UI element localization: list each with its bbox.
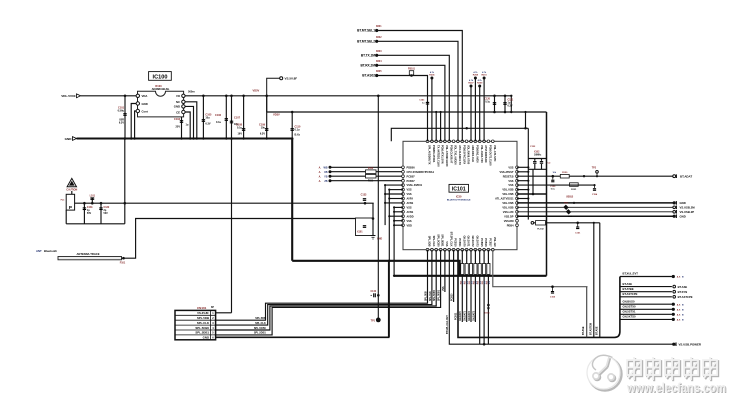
svg-text:VSS.DM: VSS.DM xyxy=(504,219,514,223)
wire left pin 5 stub xyxy=(384,184,403,186)
svg-text:PCB16: PCB16 xyxy=(484,238,488,247)
wire filter ground bar xyxy=(66,210,125,224)
IC100 reference label box xyxy=(149,72,172,81)
wire right pin 4 stub xyxy=(517,180,529,182)
node terminal BT.RX.2M xyxy=(360,60,382,68)
node USB terminal VS.USB.2M xyxy=(673,206,695,210)
svg-text:0.1u: 0.1u xyxy=(551,188,556,190)
wire bottom pin8 label xyxy=(456,312,458,320)
capacitor C108 xyxy=(236,96,245,139)
svg-text:B: B xyxy=(682,304,684,306)
capacitor C152 xyxy=(530,146,537,153)
svg-text:BT.ASE: BT.ASE xyxy=(623,282,633,286)
svg-text:ANTENNA TRACE: ANTENNA TRACE xyxy=(76,252,99,256)
svg-text:R121: R121 xyxy=(571,189,577,191)
svg-text:PCB15: PCB15 xyxy=(480,238,484,247)
svg-text:470: 470 xyxy=(488,281,491,284)
node terminal BT.MT.SEL1 xyxy=(357,26,382,33)
wire VDD drop to top pin x436.2 xyxy=(435,111,437,141)
IC100 body xyxy=(138,91,184,117)
node VDL5V label xyxy=(253,89,260,93)
svg-text:VDL.USB: VDL.USB xyxy=(502,188,513,192)
IC101 reference label box xyxy=(449,184,469,192)
node ladder terminal BT.ASTCPE xyxy=(673,295,693,299)
svg-text:SPL.5DB1: SPL.5DB1 xyxy=(439,289,441,301)
svg-text:BT.SPL.CLK.OUT: BT.SPL.CLK.OUT xyxy=(447,315,449,334)
wire antenna to RF input xyxy=(122,219,356,259)
wire thick pin7 line xyxy=(517,169,547,195)
svg-text:A.: A. xyxy=(319,175,322,178)
svg-text:VDL.5V00: VDL.5V00 xyxy=(61,94,76,98)
svg-text:PCB07: PCB07 xyxy=(407,174,416,178)
wire bottom pin6 long GND xyxy=(447,250,673,345)
svg-text:0.1u: 0.1u xyxy=(237,127,242,130)
wire ladder row BT.XUL.EVT xyxy=(620,272,672,277)
svg-text:RESET.B: RESET.B xyxy=(503,174,514,178)
node left input terminal A.YB xyxy=(319,175,403,179)
wire GND strap x389 xyxy=(388,260,391,263)
svg-text:SPL.CLK: SPL.CLK xyxy=(432,236,436,247)
wire VSS ring top xyxy=(391,111,528,141)
resistor R32 on bottom pin 11 xyxy=(468,250,474,322)
svg-text:PCB11: PCB11 xyxy=(458,238,462,247)
svg-text:PCB47: PCB47 xyxy=(407,179,416,183)
svg-text:ATX.CLKDD1.TX: ATX.CLKDD1.TX xyxy=(458,145,462,165)
svg-text:CAUTION: CAUTION xyxy=(66,188,77,191)
svg-text:R204: R204 xyxy=(376,60,382,63)
svg-text:PCB10: PCB10 xyxy=(452,293,454,301)
svg-text:C106: C106 xyxy=(215,114,222,117)
capacitor C120 xyxy=(484,95,496,114)
node junction 5V at 3V rail xyxy=(230,95,233,98)
svg-text:C140: C140 xyxy=(371,290,377,293)
wire VSS bus x385 xyxy=(384,185,386,225)
svg-text:R203: R203 xyxy=(376,51,382,53)
capacitor C101 xyxy=(118,96,127,139)
svg-text:BT.AS02: BT.AS02 xyxy=(362,74,375,78)
capacitor C104 xyxy=(174,117,189,139)
wire SPI SPL.5DB1 xyxy=(216,250,441,335)
svg-text:1u: 1u xyxy=(422,103,425,105)
IC100 part labels xyxy=(152,84,170,91)
ferrite bead FB101 xyxy=(408,69,416,77)
svg-text:R201: R201 xyxy=(376,26,382,28)
svg-text:C152: C152 xyxy=(530,146,536,148)
node GND.POWER terminal xyxy=(672,342,702,346)
wire ladder row BT.ATBE xyxy=(620,287,672,292)
node terminal BT.TX.2M xyxy=(361,51,382,58)
svg-text:10u: 10u xyxy=(205,117,210,120)
resistor R35 on bottom pin 14 xyxy=(482,250,486,345)
wire SPI SPL.5CB0 xyxy=(216,250,437,330)
svg-text:GN.5STX1: GN.5STX1 xyxy=(623,310,636,314)
svg-text:VDL.AT1.SYN: VDL.AT1.SYN xyxy=(493,145,497,162)
svg-text:F101: F101 xyxy=(120,261,126,264)
svg-text:1u: 1u xyxy=(186,124,189,127)
svg-text:50V: 50V xyxy=(104,212,109,215)
svg-text:25V: 25V xyxy=(176,126,181,129)
wire ladder row GN.5STX0 xyxy=(620,305,672,310)
ground stub under matchbox xyxy=(371,236,383,241)
svg-text:GND: GND xyxy=(680,201,686,205)
svg-text:C151: C151 xyxy=(575,233,581,235)
node left input terminal A.XB xyxy=(319,170,403,174)
wire VDD rail x378 xyxy=(377,95,380,320)
svg-text:PCM.ATX1.SYN: PCM.ATX1.SYN xyxy=(441,145,445,164)
svg-text:P: P xyxy=(69,205,72,210)
svg-text:VSS: VSS xyxy=(508,183,513,187)
wire USB line 1 xyxy=(517,202,673,204)
svg-text:GN.BUS0: GN.BUS0 xyxy=(623,299,635,303)
wire match vertical xyxy=(372,203,375,235)
capacitor C106 xyxy=(215,96,228,139)
svg-text:GN.DAT0: GN.DAT0 xyxy=(459,310,462,321)
svg-text:VS.5V.8F: VS.5V.8F xyxy=(285,77,298,81)
svg-text:GN.DAT0: GN.DAT0 xyxy=(462,236,466,248)
svg-text:6.3V: 6.3V xyxy=(508,105,513,108)
svg-text:0.1u: 0.1u xyxy=(216,121,221,124)
wire 5V from input to IC100 pin1 xyxy=(81,95,137,97)
wire VSS bus x389 xyxy=(388,190,390,338)
svg-text:SPL.5CB0: SPL.5CB0 xyxy=(434,289,436,301)
node ladder terminal GN.BUS0 xyxy=(672,303,684,307)
watermark logo circle xyxy=(587,355,622,390)
capacitor C131 xyxy=(83,202,94,224)
svg-text:PCM.SYNC1.RX: PCM.SYNC1.RX xyxy=(462,145,466,164)
capacitor C153 xyxy=(550,175,556,190)
svg-text:BT.MT.SEL1: BT.MT.SEL1 xyxy=(357,29,375,33)
node pull stub R210 xyxy=(481,71,487,141)
svg-text:R202: R202 xyxy=(376,37,382,39)
wire 3V rail x231 xyxy=(230,137,233,313)
svg-text:X102: X102 xyxy=(534,152,540,154)
svg-text:BT.ASE: BT.ASE xyxy=(678,285,688,289)
capacitor C154 xyxy=(592,184,598,196)
wire CN101 GND row xyxy=(216,261,389,338)
IC100 pin 6 VO xyxy=(176,94,185,98)
svg-text:SPL.5DB1: SPL.5DB1 xyxy=(441,234,445,247)
connector CN101 pin labels xyxy=(195,311,214,340)
svg-text:VDA: VDA xyxy=(142,94,148,98)
wire BT.MT.SEL2 to IC101 xyxy=(378,41,458,141)
IC101 bottom pin circles row xyxy=(426,248,494,251)
node terminal BT.MT.SEL2 xyxy=(357,37,382,44)
svg-text:A.X: A.X xyxy=(677,313,681,316)
resistor R110 xyxy=(366,168,377,174)
svg-text:GN.DAT2: GN.DAT2 xyxy=(471,236,475,248)
wire drop x600 xyxy=(599,223,601,338)
svg-text:B: B xyxy=(682,320,684,322)
svg-text:0.1u: 0.1u xyxy=(485,101,490,104)
node ANT Bluetooth label xyxy=(36,249,57,253)
wire ladder row BT.ASE xyxy=(620,282,672,287)
svg-text:GN.DAT2: GN.DAT2 xyxy=(468,310,471,321)
wire ladder row BT.ASTCPE xyxy=(620,292,672,297)
wire BT.TX.2M to IC101 xyxy=(378,55,449,141)
node VS.5V.8F terminal xyxy=(267,77,298,96)
node junction reset xyxy=(583,175,585,177)
svg-text:VDL.USB: VDL.USB xyxy=(502,206,513,210)
node junction 5V at C105 xyxy=(202,95,205,98)
wire left pin 14 stub xyxy=(393,224,403,226)
node ladder terminal GN.5STX0 xyxy=(672,308,684,312)
svg-text:BT.ASTCPE: BT.ASTCPE xyxy=(623,292,638,296)
svg-text:AVDD: AVDD xyxy=(407,214,414,218)
filter FL101 box xyxy=(61,194,75,210)
wire bottom pin7 drop xyxy=(452,250,454,302)
inductor L101 stub xyxy=(90,194,96,203)
svg-text:BT.ADAT: BT.ADAT xyxy=(680,175,692,179)
svg-text:AVSS: AVSS xyxy=(407,210,414,214)
capacitor C110 xyxy=(291,112,301,139)
wire pin R5 line xyxy=(517,184,595,186)
svg-text:A.: A. xyxy=(319,167,322,170)
wire IC100 pin7 drop xyxy=(185,112,190,139)
wire left pin 11 stub xyxy=(393,211,403,213)
filter FL102 xyxy=(536,221,546,231)
wire IC100 pin2 to ground drop xyxy=(131,104,136,139)
svg-text:500m: 500m xyxy=(188,90,195,94)
resistor R111 xyxy=(366,174,377,182)
svg-text:GN.DAT3: GN.DAT3 xyxy=(476,236,480,248)
svg-text:PDB00: PDB00 xyxy=(407,165,416,169)
capacitor C109 xyxy=(259,96,268,139)
wire SPI SPL.CLK xyxy=(216,250,432,325)
svg-text:R210: R210 xyxy=(481,74,487,76)
svg-text:GN.5STX0: GN.5STX0 xyxy=(623,305,636,309)
watermark url text xyxy=(626,380,727,396)
svg-text:6P: 6P xyxy=(211,306,214,309)
svg-text:ATST.DD08.RX: ATST.DD08.RX xyxy=(484,145,488,163)
svg-text:IC30: IC30 xyxy=(456,194,462,198)
wire BT.AS02 to IC101 xyxy=(378,76,427,142)
watermark CJK text xyxy=(627,357,718,381)
node junction RF at C130 xyxy=(91,202,94,205)
node pull stub R208 xyxy=(473,71,479,141)
node pull stub R207 xyxy=(468,79,474,141)
node junction bottom GND line xyxy=(483,343,486,346)
svg-text:SPL.5CB0: SPL.5CB0 xyxy=(254,327,267,330)
svg-text:VSS: VSS xyxy=(508,179,513,183)
wire GND bus xyxy=(77,137,293,140)
svg-text:R209: R209 xyxy=(477,82,483,84)
svg-text:GND: GND xyxy=(142,102,148,106)
svg-text:VSS.LVD: VSS.LVD xyxy=(503,210,514,214)
svg-text:C2: C2 xyxy=(548,163,552,165)
matching network box xyxy=(356,218,374,236)
svg-text:AN48841B-NL: AN48841B-NL xyxy=(152,87,170,91)
svg-text:BT.XUL.EVT: BT.XUL.EVT xyxy=(623,272,639,276)
wire right pin 1 stub xyxy=(517,166,529,168)
IC100 pin 3 Cont xyxy=(136,109,148,113)
svg-text:FL102: FL102 xyxy=(537,228,544,230)
svg-text:VDL.RX08.ATX0: VDL.RX08.ATX0 xyxy=(467,145,471,165)
wire IC100 pin4 drop xyxy=(185,106,193,138)
IC101 right pin labels xyxy=(495,165,514,227)
node usb net label xyxy=(566,196,575,204)
node test point blob xyxy=(371,318,381,323)
svg-text:TP2: TP2 xyxy=(592,168,597,170)
svg-text:VSS: VSS xyxy=(445,241,449,246)
svg-text:SPL.5DB1: SPL.5DB1 xyxy=(195,331,209,335)
node USB terminal GND xyxy=(673,214,686,218)
svg-text:VSS: VSS xyxy=(443,286,445,291)
svg-text:GN.DAT1: GN.DAT1 xyxy=(464,310,467,321)
svg-text:AVSS: AVSS xyxy=(407,201,414,205)
wire left pin 9 stub xyxy=(384,202,403,204)
svg-text:SPL.5DB: SPL.5DB xyxy=(425,291,427,301)
svg-text:GN.DAT3: GN.DAT3 xyxy=(472,310,475,321)
svg-text:C141: C141 xyxy=(419,99,425,102)
svg-text:PCB17: PCB17 xyxy=(489,238,493,247)
svg-text:GND: GND xyxy=(680,215,686,219)
IC101 top pin labels xyxy=(428,145,497,167)
svg-text:VO: VO xyxy=(176,94,181,98)
svg-text:TP1: TP1 xyxy=(371,320,376,323)
svg-text:3: 3 xyxy=(212,322,214,325)
svg-text:5: 5 xyxy=(212,332,214,335)
svg-text:VSS: VSS xyxy=(407,206,412,210)
svg-text:WB: WB xyxy=(324,167,328,170)
wire drop x587 xyxy=(586,287,588,338)
capacitor C107 xyxy=(230,96,241,139)
svg-text:0.56u: 0.56u xyxy=(118,110,125,113)
IC100 pin 2 GND xyxy=(136,102,148,106)
svg-text:0.1u: 0.1u xyxy=(295,129,300,132)
node left input terminal A.WB xyxy=(319,166,403,170)
ferrite bead FB102 xyxy=(563,203,569,210)
node junction on 5V at C101 xyxy=(124,95,127,98)
svg-text:VD3V: VD3V xyxy=(273,112,280,116)
wire VSS bottom bus xyxy=(394,275,546,277)
wire IC100 out 5V line xyxy=(185,90,511,96)
svg-text:SPL.5DB1: SPL.5DB1 xyxy=(254,332,267,335)
wire IC100 pin3 to ground drop xyxy=(135,111,137,139)
svg-text:IC100: IC100 xyxy=(153,75,168,81)
node junction 5V at C106 xyxy=(225,95,228,98)
svg-text:BT.TX.2M: BT.TX.2M xyxy=(361,54,376,58)
svg-text:6.3V: 6.3V xyxy=(260,133,265,136)
svg-text:10k: 10k xyxy=(553,172,557,174)
svg-text:Cont: Cont xyxy=(142,109,148,113)
svg-text:VSS: VSS xyxy=(508,165,513,169)
wire IC100 pin5 drop xyxy=(185,102,197,139)
wire GND bottom bus xyxy=(292,261,459,276)
node ladder terminal BT.ASE xyxy=(673,285,687,289)
connector CN101 label xyxy=(197,306,214,310)
resistor R121 xyxy=(570,183,579,191)
svg-text:VDL.GN: VDL.GN xyxy=(493,237,497,247)
svg-text:L101: L101 xyxy=(90,194,96,197)
node pull stub R209 xyxy=(477,79,483,141)
wire 5V corner drop to 3V bus xyxy=(510,95,512,114)
svg-text:PDB4: PDB4 xyxy=(507,223,514,227)
svg-text:VDD: VDD xyxy=(407,223,413,227)
svg-text:SPL.CLK: SPL.CLK xyxy=(255,322,266,325)
svg-text:R111: R111 xyxy=(368,180,374,182)
wire SPI SPL.5DB xyxy=(216,250,428,321)
svg-text:BT.ASE: BT.ASE xyxy=(595,326,598,335)
svg-text:BT.ASTEM: BT.ASTEM xyxy=(589,323,592,335)
svg-text:B: B xyxy=(682,277,684,279)
node GND input terminal xyxy=(65,137,77,142)
wire USB line 4 xyxy=(517,215,673,217)
wire ground riser x125 xyxy=(124,137,127,224)
wire ladder row GN.BUS0 xyxy=(620,299,672,304)
svg-text:C104: C104 xyxy=(174,118,181,121)
svg-text:VSSL.DVD01: VSSL.DVD01 xyxy=(407,183,423,187)
svg-text:YB: YB xyxy=(324,175,328,178)
svg-text:C154: C154 xyxy=(592,193,598,196)
wire left pin 6 stub xyxy=(388,189,403,191)
wire USB line 2 xyxy=(517,206,673,208)
resistor R33 on bottom pin 12 xyxy=(472,250,478,322)
svg-text:AVFA: AVFA xyxy=(407,197,414,201)
svg-text:VS.USB.2M: VS.USB.2M xyxy=(680,206,696,210)
svg-text:50V: 50V xyxy=(87,212,92,215)
IC101 body outline xyxy=(403,141,517,249)
node USB terminal GND xyxy=(673,201,686,205)
wire bottom pin5 drop xyxy=(443,250,445,292)
resistor R31 on bottom pin 10 xyxy=(464,250,470,322)
node junction 5V at C108 xyxy=(242,95,245,98)
svg-text:VSS.ATEST: VSS.ATEST xyxy=(500,170,514,174)
svg-text:16MHz: 16MHz xyxy=(534,155,542,157)
svg-text:A.: A. xyxy=(319,171,322,174)
resistor R36 on bottom pin 15 xyxy=(486,250,490,345)
svg-text:C133: C133 xyxy=(361,194,367,197)
svg-text:VDL.USB: VDL.USB xyxy=(502,201,513,205)
svg-text:GN.DAT1: GN.DAT1 xyxy=(467,236,471,248)
svg-text:XB: XB xyxy=(324,171,328,174)
wire ladder row GN.5STX1 xyxy=(620,310,672,315)
svg-text:6.3V: 6.3V xyxy=(119,122,124,125)
wire BT.RX.2M to IC101 xyxy=(378,65,445,141)
diode D101 xyxy=(484,304,490,315)
svg-text:R208: R208 xyxy=(473,74,479,76)
node junction RF at matchbox xyxy=(364,202,367,205)
connector CN101 body xyxy=(175,310,216,339)
svg-text:A.X: A.X xyxy=(677,276,681,279)
wire CN101 pin1 to 3V rail xyxy=(216,312,232,314)
wire vdd strap x547 xyxy=(546,112,548,276)
svg-text:R110: R110 xyxy=(368,168,374,170)
svg-text:IC101: IC101 xyxy=(452,187,466,193)
svg-text:PCM.IN1.AVD0: PCM.IN1.AVD0 xyxy=(476,145,480,163)
resistor R120 xyxy=(553,172,570,178)
wire right vss bus x528 xyxy=(527,128,529,219)
resistor R34 on bottom pin 13 xyxy=(477,250,482,345)
svg-text:VS.USB.2P: VS.USB.2P xyxy=(680,210,695,214)
svg-text:PCM.OUT1.CLK0: PCM.OUT1.CLK0 xyxy=(489,145,493,166)
svg-text:GND: GND xyxy=(203,336,209,340)
svg-text:SPL.CLK: SPL.CLK xyxy=(197,321,210,325)
IC101 right pin circles column xyxy=(516,166,519,227)
svg-text:4: 4 xyxy=(212,327,214,330)
wire left pin 10 stub xyxy=(393,206,403,208)
node pull stub R206 xyxy=(429,71,435,141)
IC101 left pin circles column xyxy=(402,166,405,227)
svg-text:X101: X101 xyxy=(357,231,363,234)
svg-text:VSS: VSS xyxy=(407,188,412,192)
svg-text:A.X: A.X xyxy=(677,319,681,322)
svg-text:BT.ASE: BT.ASE xyxy=(582,326,585,335)
svg-text:VDL.TX1.AVDD0: VDL.TX1.AVDD0 xyxy=(454,145,458,165)
svg-text:BLUETOOTH MODULE: BLUETOOTH MODULE xyxy=(447,200,471,202)
svg-text:1: 1 xyxy=(212,312,214,315)
wire thick gnd bus to ladder xyxy=(458,250,620,338)
wire right pin 6 stub xyxy=(517,189,529,191)
